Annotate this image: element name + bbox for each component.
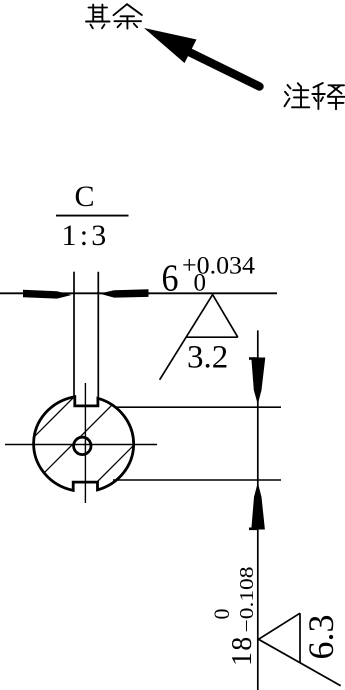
arrow down (18 top) xyxy=(251,358,265,405)
center hole xyxy=(74,437,91,454)
svg-text:−0.108: −0.108 xyxy=(236,567,258,633)
text 注释 (drawn strokes) xyxy=(285,83,345,109)
extension line left keyway xyxy=(73,272,75,398)
svg-text:0: 0 xyxy=(194,269,207,296)
roughness symbol 3.2 xyxy=(160,295,238,380)
hatch lines (section) xyxy=(10,350,229,569)
roughness symbol 6.3 (rotated) xyxy=(259,613,341,686)
arrow left (points right) xyxy=(23,290,72,299)
shaft section outline with keyways xyxy=(34,397,134,491)
svg-text:C: C xyxy=(75,180,95,213)
dimension line (width 6) xyxy=(0,292,277,294)
text 其余 (drawn strokes) xyxy=(86,4,142,28)
horizontal centerline xyxy=(5,444,157,446)
leader arrow (其余 pointer) xyxy=(144,28,260,87)
svg-text:0: 0 xyxy=(209,609,234,620)
vertical centerline xyxy=(84,383,86,503)
注 xyxy=(288,85,291,89)
svg-text:18: 18 xyxy=(227,636,258,666)
arrow up (18 bottom) xyxy=(251,483,265,530)
extension line right keyway xyxy=(97,272,99,399)
dimension line (18) vertical xyxy=(257,330,259,690)
svg-text:3.2: 3.2 xyxy=(187,339,228,375)
extension line lower keyway (right) xyxy=(113,479,281,481)
view label fraction line xyxy=(56,215,129,217)
arrow right (points left) xyxy=(100,289,149,297)
其 xyxy=(89,7,108,9)
svg-text:6.3: 6.3 xyxy=(301,615,341,660)
svg-text:1:3: 1:3 xyxy=(62,219,110,252)
extension line keyway bottom (right) xyxy=(114,406,281,408)
arrow top base tick xyxy=(249,357,258,360)
释 xyxy=(314,83,323,88)
arrow bottom base tick xyxy=(249,527,258,530)
余 xyxy=(114,4,128,15)
